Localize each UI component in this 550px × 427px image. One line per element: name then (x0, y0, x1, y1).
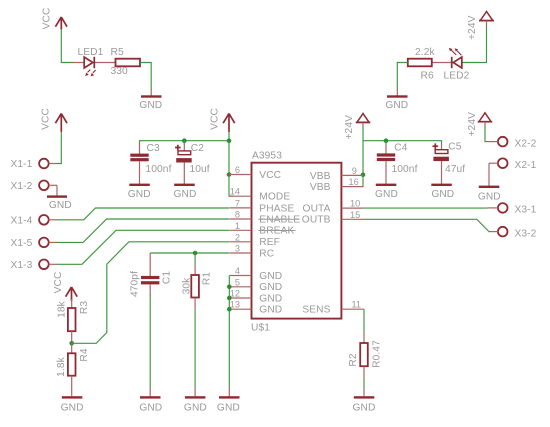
pin 10 OUTA (303, 199, 363, 215)
svg-text:C4: C4 (394, 143, 407, 154)
node bus/C2 junction (182, 138, 187, 143)
svg-text:VCC: VCC (210, 108, 221, 130)
connector X1-3 (11, 260, 59, 272)
wire X1-5 to ENABLE (58, 219, 230, 242)
resistor R1 (181, 253, 212, 309)
svg-text:GND: GND (139, 100, 162, 111)
ground (under X2-1) (478, 179, 501, 203)
svg-text:GND: GND (128, 189, 151, 200)
diode LED1 (73, 47, 116, 76)
svg-text:MODE: MODE (259, 192, 290, 203)
IC U$1 A3953 (251, 150, 341, 333)
svg-text:R2: R2 (348, 353, 359, 366)
pin 4 GND (229, 266, 282, 282)
connector X1-2 (11, 181, 58, 193)
svg-text:330: 330 (111, 66, 129, 77)
wire C1 to GND (149, 296, 151, 388)
supply symbol VCC (top left) (42, 8, 68, 30)
svg-text:X1-4: X1-4 (11, 216, 33, 227)
wire X1-4 to PHASE (58, 208, 230, 220)
svg-text:PHASE: PHASE (259, 203, 294, 214)
wire X1-3 to BREAK (58, 230, 230, 264)
supply symbol +24V (top right) (467, 12, 494, 41)
pin 3 RC (229, 244, 274, 260)
svg-text:10uf: 10uf (190, 164, 210, 175)
svg-text:2.2k: 2.2k (415, 47, 435, 58)
pin 6 VCC (229, 165, 281, 181)
ground (under R6) (385, 89, 408, 111)
svg-text:U$1: U$1 (251, 322, 270, 333)
svg-text:GND: GND (353, 403, 376, 414)
svg-text:8: 8 (235, 210, 240, 220)
svg-text:R1: R1 (202, 272, 213, 285)
svg-text:GND: GND (259, 305, 282, 316)
svg-text:+24V: +24V (467, 112, 478, 137)
svg-text:C3: C3 (147, 143, 160, 154)
svg-text:C5: C5 (448, 142, 461, 153)
svg-text:X3-1: X3-1 (515, 205, 537, 216)
supply symbol VCC (above R3) (53, 272, 77, 301)
svg-text:R4: R4 (79, 348, 90, 361)
wire R6 to GND (397, 63, 408, 90)
wire R5 to GND (140, 63, 151, 90)
wire SENS to R2 (363, 309, 365, 332)
svg-text:X2-1: X2-1 (515, 160, 537, 171)
svg-text:VCC: VCC (41, 108, 52, 130)
svg-text:SENS: SENS (302, 305, 330, 316)
node R3/R4 junction (69, 341, 74, 346)
resistor R5 (111, 47, 141, 77)
svg-text:GND: GND (385, 100, 408, 111)
ground (under C2) (174, 184, 197, 201)
wire VCC bus (229, 132, 233, 197)
connector X3-1 (488, 203, 537, 216)
connector X2-1 (489, 158, 537, 179)
svg-text:GND: GND (217, 403, 240, 414)
svg-text:X1-3: X1-3 (11, 260, 33, 271)
svg-text:18k: 18k (57, 300, 68, 318)
ground (under R4) (61, 391, 84, 414)
pin 14 MODE (229, 187, 290, 203)
svg-text:X3-2: X3-2 (515, 228, 537, 239)
ground (under C4) (375, 184, 398, 200)
svg-text:100nf: 100nf (146, 164, 172, 175)
pin 16 VBB (310, 177, 363, 193)
pin 12 GND (229, 289, 282, 305)
resistor R6 (408, 47, 436, 81)
connector X2-2 (488, 137, 537, 150)
wire +24V to LED2 (486, 21, 488, 26)
svg-text:2: 2 (235, 232, 240, 242)
supply symbol +24V (above C4) (344, 114, 370, 140)
svg-text:3: 3 (235, 244, 240, 254)
wire OUTB to X3-2 (363, 219, 489, 231)
supply symbol +24V (right, X2-2) (467, 112, 492, 137)
svg-text:47uf: 47uf (445, 164, 465, 175)
resistor R3 (57, 299, 91, 343)
svg-text:10: 10 (350, 199, 360, 209)
wire R2 to GND (363, 378, 365, 391)
supply symbol VCC (above IC) (210, 108, 235, 132)
svg-text:GND: GND (431, 189, 454, 200)
svg-text:VBB: VBB (310, 171, 331, 182)
svg-text:GND: GND (478, 192, 501, 203)
ground (under R2) (353, 390, 376, 414)
wire bus to C5 (363, 141, 442, 145)
connector X1-5 (11, 238, 59, 250)
pin 8 ENABLE (229, 210, 300, 226)
ground (under C3) (128, 184, 151, 201)
wire +24V bus right (362, 122, 364, 127)
pin 13 GND (229, 300, 282, 316)
svg-text:9: 9 (352, 166, 357, 176)
svg-text:16: 16 (349, 177, 359, 187)
svg-text:15: 15 (350, 210, 360, 220)
diode LED2 (432, 48, 470, 81)
svg-text:GND: GND (375, 189, 398, 200)
svg-text:RC: RC (259, 248, 274, 259)
wire R1 to GND (194, 309, 196, 388)
svg-text:X1-5: X1-5 (11, 238, 33, 249)
pin 2 REF (229, 232, 280, 248)
svg-text:A3953: A3953 (252, 150, 282, 161)
wire bus to C3 (140, 141, 230, 144)
svg-text:GND: GND (259, 271, 282, 282)
pin 9 VBB (310, 166, 363, 182)
connector X1-4 (11, 215, 59, 227)
capacitor C4 (377, 141, 418, 184)
node bus/VCC junction (227, 138, 232, 143)
ground (under R5) (139, 89, 162, 111)
node bus/C4 junction (384, 138, 389, 143)
node pin5 junction (227, 285, 232, 290)
pin 7 PHASE (229, 198, 294, 214)
wire VCC to LED1 (61, 29, 73, 63)
node VBB pin9 junction (361, 173, 366, 178)
svg-text:1: 1 (235, 221, 240, 231)
capacitor C3 (130, 143, 171, 184)
wire pin9 to pin16 (362, 175, 363, 187)
resistor R2 (348, 332, 382, 378)
svg-text:470pf: 470pf (130, 271, 141, 297)
capacitor C5 (polarized) (433, 142, 466, 184)
wire VCC to X1-1 (58, 132, 62, 164)
svg-text:BREAK: BREAK (259, 226, 294, 237)
supply symbol VCC (left, X1-1) (41, 108, 68, 132)
svg-text:R3: R3 (79, 301, 90, 314)
wire REF net (72, 242, 229, 343)
ground (under GND pins) (217, 387, 240, 414)
svg-text:C1: C1 (162, 271, 173, 284)
pin 11 SENS (302, 300, 364, 316)
svg-text:VBB: VBB (310, 182, 331, 193)
resistor R4 (56, 343, 90, 391)
svg-text:OUTA: OUTA (303, 204, 331, 215)
pin 15 OUTB (302, 210, 363, 226)
svg-text:GND: GND (139, 403, 162, 414)
svg-text:X2-2: X2-2 (515, 138, 537, 149)
svg-text:X1-2: X1-2 (11, 181, 33, 192)
svg-text:GND: GND (259, 282, 282, 293)
svg-text:R6: R6 (421, 70, 434, 81)
capacitor C1 (130, 253, 173, 297)
node pin12 junction (227, 296, 232, 301)
connector X1-1 (11, 159, 60, 171)
svg-text:+24V: +24V (344, 115, 355, 140)
svg-text:VCC: VCC (42, 8, 53, 30)
node pin13 junction (227, 307, 232, 312)
wire GND pins column (228, 276, 230, 388)
svg-text:LED2: LED2 (444, 70, 470, 81)
ground (under C5) (431, 184, 454, 200)
svg-text:GND: GND (61, 403, 84, 414)
node VCC pin6 junction (227, 172, 232, 177)
svg-text:1.8k: 1.8k (56, 356, 67, 376)
svg-text:LED1: LED1 (78, 47, 104, 58)
node RC/R1 junction (193, 251, 198, 256)
svg-text:VCC: VCC (53, 272, 64, 294)
svg-text:ENABLE: ENABLE (259, 214, 300, 225)
connector X3-2 (489, 227, 537, 240)
pin 5 GND (229, 277, 282, 293)
svg-text:GND: GND (49, 200, 72, 211)
svg-text:R0.47: R0.47 (371, 340, 382, 368)
svg-text:GND: GND (259, 293, 282, 304)
svg-text:30k: 30k (181, 277, 192, 295)
ground (under R1) (184, 387, 207, 414)
svg-text:7: 7 (235, 198, 240, 208)
svg-text:X1-1: X1-1 (11, 159, 33, 170)
ground (under X1-2) (47, 192, 72, 212)
wire OUTA to X3-1 (363, 207, 488, 209)
wire RC net (150, 252, 229, 254)
svg-text:GND: GND (184, 403, 207, 414)
ground (under C1) (139, 387, 162, 414)
svg-text:14: 14 (230, 187, 240, 197)
svg-text:100nf: 100nf (392, 164, 418, 175)
svg-text:4: 4 (235, 266, 240, 276)
svg-text:VCC: VCC (259, 170, 281, 181)
pin 1 BREAK (229, 221, 295, 237)
svg-text:R5: R5 (111, 47, 124, 58)
svg-text:C2: C2 (191, 143, 204, 154)
svg-text:6: 6 (235, 165, 240, 175)
wire +24V to X2-2 (484, 122, 486, 127)
capacitor C2 (polarized) (175, 141, 210, 184)
svg-text:5: 5 (235, 277, 240, 287)
svg-text:REF: REF (259, 237, 280, 248)
svg-text:OUTB: OUTB (302, 215, 331, 226)
svg-text:GND: GND (174, 189, 197, 200)
svg-text:+24V: +24V (467, 15, 478, 40)
svg-text:11: 11 (352, 300, 362, 310)
